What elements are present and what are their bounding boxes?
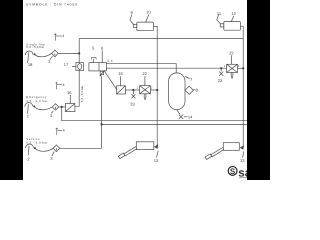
svg-text:13: 13 <box>240 158 245 163</box>
svg-text:12: 12 <box>231 11 236 16</box>
svg-text:17: 17 <box>64 62 69 67</box>
svg-text:4: 4 <box>63 83 65 87</box>
svg-text:4,5 - 6,3 bar: 4,5 - 6,3 bar <box>26 99 47 103</box>
svg-text:S: S <box>230 167 236 176</box>
svg-text:4: 4 <box>62 34 64 38</box>
svg-text:23: 23 <box>130 102 135 107</box>
svg-text:22: 22 <box>229 51 234 56</box>
svg-text:4: 4 <box>63 129 65 133</box>
svg-text:23: 23 <box>218 78 223 83</box>
svg-text:16: 16 <box>67 90 72 95</box>
svg-text:22: 22 <box>143 71 148 76</box>
svg-text:5,3 - 5,3 bar: 5,3 - 5,3 bar <box>26 45 44 49</box>
svg-text:18: 18 <box>28 62 33 67</box>
svg-text:15: 15 <box>118 71 123 76</box>
svg-text:SYMBOLE - DIN 74058: SYMBOLE - DIN 74058 <box>26 2 77 6</box>
svg-text:13: 13 <box>154 158 159 163</box>
svg-text:6,5 - 8,3 bar: 6,5 - 8,3 bar <box>26 140 47 144</box>
svg-text:2-1: 2-1 <box>107 59 113 63</box>
svg-text:10: 10 <box>146 9 151 14</box>
svg-text:14: 14 <box>188 115 193 120</box>
svg-text:5,3 - 5,3 bar: 5,3 - 5,3 bar <box>80 86 84 103</box>
